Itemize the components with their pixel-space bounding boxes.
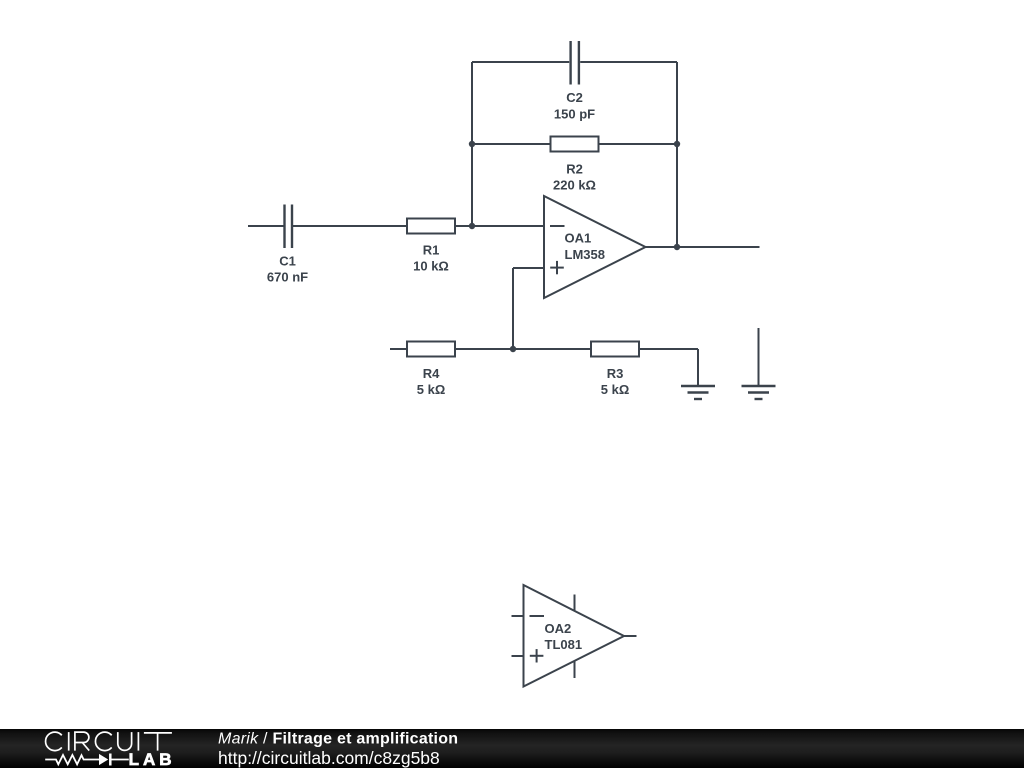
svg-text:670 nF: 670 nF (267, 270, 308, 285)
svg-text:C1: C1 (279, 254, 296, 269)
svg-text:LAB: LAB (129, 750, 176, 768)
svg-text:R3: R3 (607, 366, 624, 381)
svg-text:5 kΩ: 5 kΩ (417, 382, 446, 397)
svg-text:5 kΩ: 5 kΩ (601, 382, 630, 397)
svg-text:10 kΩ: 10 kΩ (413, 259, 449, 274)
svg-text:150 pF: 150 pF (554, 107, 595, 122)
svg-text:TL081: TL081 (545, 637, 583, 652)
svg-text:OA1: OA1 (565, 231, 592, 246)
svg-text:http://circuitlab.com/c8zg5b8: http://circuitlab.com/c8zg5b8 (218, 748, 440, 768)
svg-text:220 kΩ: 220 kΩ (553, 178, 596, 193)
svg-text:Marik / Filtrage et amplificat: Marik / Filtrage et amplification (218, 730, 458, 747)
svg-text:C2: C2 (566, 90, 583, 105)
svg-text:R1: R1 (423, 243, 440, 258)
svg-text:OA2: OA2 (545, 621, 572, 636)
svg-text:R4: R4 (423, 366, 440, 381)
svg-text:LM358: LM358 (565, 247, 605, 262)
svg-text:R2: R2 (566, 162, 583, 177)
